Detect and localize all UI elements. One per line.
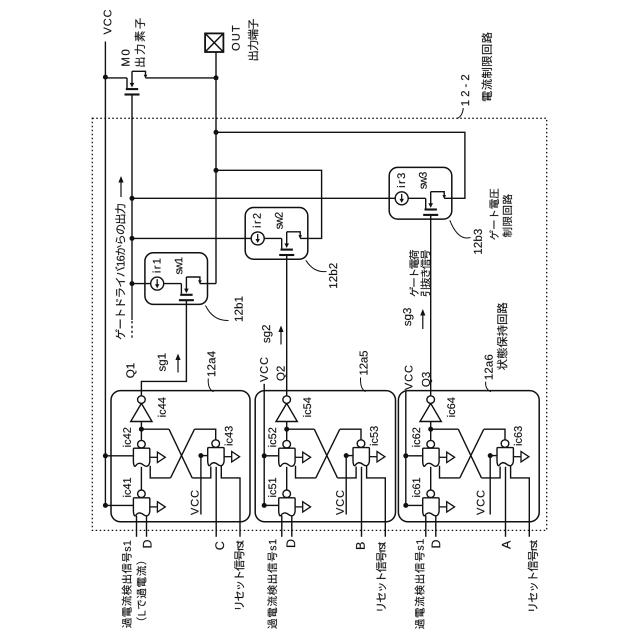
label 12a5 xyxy=(360,351,368,375)
wire ic53 stub to reset xyxy=(367,466,386,537)
label L-level overcurrent note xyxy=(136,562,146,620)
wire ic63 input from VCC stub xyxy=(490,455,497,457)
wire latch diagonal 1 xyxy=(458,429,481,478)
wire latch cross bottom-right xyxy=(192,467,211,478)
wire latch cross bottom-left xyxy=(150,466,170,478)
wire VCC stub block2 xyxy=(263,384,265,392)
wire ic61 input stub left xyxy=(425,516,427,537)
inverter ic44 xyxy=(131,396,152,422)
nand gate ic42 xyxy=(133,440,149,466)
wire ic42 input from rail xyxy=(105,455,133,457)
label ic63 xyxy=(514,426,522,445)
wire latch cross bottom-right xyxy=(482,467,501,478)
label ic64 xyxy=(447,397,455,416)
buffer triangle ic41 xyxy=(150,502,166,512)
wire VCC stub ic43 xyxy=(200,456,202,515)
label output from gate driver 16 xyxy=(115,204,125,339)
terminal OUT box xyxy=(205,33,223,52)
wire M0 drain to OUT node xyxy=(146,77,217,79)
wire ic63 stub to reset xyxy=(511,466,530,537)
label ir1 xyxy=(153,259,161,273)
buffer triangle ic61 xyxy=(439,502,455,512)
label ic53 xyxy=(370,426,378,445)
label D input block2 xyxy=(287,540,296,547)
wire ic61 input from rail xyxy=(406,504,423,506)
arrow sg1 direction xyxy=(175,354,180,373)
buffer triangle ic63 xyxy=(513,452,529,462)
label sg2 xyxy=(262,325,272,343)
wire ic43 input from VCC stub xyxy=(201,455,208,457)
wire ic44 input xyxy=(140,422,142,441)
wire ic43 stub to C-input xyxy=(215,467,217,537)
current source ir1 xyxy=(151,277,164,290)
label gate voltage limit 2 xyxy=(503,194,513,237)
label ir3 xyxy=(397,173,405,187)
leader line 12-2 xyxy=(458,108,464,118)
buffer triangle ic51 xyxy=(295,502,311,512)
wire ic54 input xyxy=(286,422,288,441)
buffer triangle ic62 xyxy=(439,452,455,462)
label A input xyxy=(502,541,511,549)
label D input block1 xyxy=(143,540,152,547)
label 12b3 xyxy=(474,229,482,254)
block 12a5 box xyxy=(255,391,395,522)
leader line 12b1 xyxy=(206,306,229,321)
wire ic52 input from rail xyxy=(264,455,279,457)
leader line 12b3 xyxy=(450,220,471,238)
label overcurrent detect signal s1 block1 xyxy=(122,541,132,628)
leader line 12a6 xyxy=(486,382,491,392)
label overcurrent detect signal s1 block2 xyxy=(267,540,277,629)
wire VCC stub ic63 xyxy=(489,456,491,515)
label VCC block2 xyxy=(260,357,268,382)
wire sg2 from latch to sw2 gate xyxy=(286,256,288,396)
node ic43 VCC junction xyxy=(198,453,203,458)
node ic54 input junction xyxy=(284,427,289,432)
label 12-2 xyxy=(461,75,469,106)
wire ic62 input from rail xyxy=(406,455,423,457)
wire ic42 to ic41 output xyxy=(140,467,142,491)
node rail to ic51 input xyxy=(262,503,267,508)
label 12a4 xyxy=(207,351,215,376)
wire ic43 stub to reset xyxy=(221,466,240,537)
label Q1 xyxy=(126,363,136,377)
wire latch cross-couple top-left xyxy=(287,428,315,430)
nand gate ic43 xyxy=(208,440,224,466)
wire VCC rail inside 12a5 xyxy=(263,391,265,506)
wire sw2 drain riser to OUT branch xyxy=(216,170,322,238)
wire ic53 input from VCC stub xyxy=(346,455,353,457)
node ic44 input junction xyxy=(139,427,144,432)
node gate line to ir2 feed xyxy=(130,236,135,241)
wire VCC rail inside 12a6 xyxy=(405,391,407,506)
label VCC inside 12a5 xyxy=(336,490,344,515)
nand gate ic51 xyxy=(279,490,295,516)
wire latch diagonal 2 xyxy=(460,429,484,478)
wire latch diagonal 2 xyxy=(316,429,340,478)
label sw2 xyxy=(275,212,283,229)
transistor sw3 xyxy=(423,192,446,215)
wire sw1 drain to OUT line xyxy=(200,283,216,285)
label M0 output element xyxy=(135,18,145,66)
label ic44 xyxy=(158,397,166,416)
wire sg1 from latch to sw1 gate xyxy=(141,301,186,396)
boundary current limit circuit 12-2 dotted box xyxy=(92,118,546,530)
nand gate ic62 xyxy=(423,440,439,466)
buffer triangle ic53 xyxy=(369,452,385,462)
label VCC inside 12a4 xyxy=(191,490,199,515)
node gate line to ir3 feed xyxy=(130,196,135,201)
wire latch diagonal 1 xyxy=(169,429,192,478)
current source ir3 xyxy=(395,192,408,205)
wire ic41 input from rail xyxy=(105,504,133,506)
label ir2 xyxy=(253,214,261,228)
nand gate ic53 xyxy=(353,440,369,466)
label ic62 xyxy=(412,428,420,447)
wire ir2 to sw2 xyxy=(264,237,282,239)
label Q2 xyxy=(277,366,287,380)
node VCC/M0-source junction xyxy=(103,75,108,80)
label gate charge 1 xyxy=(409,250,419,297)
node OUT to sw2 branch xyxy=(214,168,219,173)
wire ir3 feed xyxy=(132,197,395,199)
nand gate ic52 xyxy=(279,440,295,466)
block 12b2 box xyxy=(245,208,308,260)
nand gate ic61 xyxy=(423,490,439,516)
buffer triangle ic52 xyxy=(295,452,311,462)
wire gate driver dashed continuation xyxy=(131,284,133,338)
wire latch cross bottom-left xyxy=(440,466,460,478)
label sg3 xyxy=(403,308,413,326)
label sw3 xyxy=(419,172,427,189)
wire ic41 input stub left xyxy=(136,516,138,537)
label ic42 xyxy=(123,428,131,447)
leader line 12b2 xyxy=(306,260,327,271)
label state holding circuit xyxy=(497,303,507,370)
label D input block3 xyxy=(432,540,441,547)
node rail to ic52 input xyxy=(262,453,267,458)
label gate voltage limit 1 xyxy=(489,189,499,240)
block 12b3 box xyxy=(389,167,452,219)
wire ic51 input stub right xyxy=(291,516,293,537)
wire latch cross bottom-right xyxy=(338,467,357,478)
label VCC supply xyxy=(104,10,112,35)
wire ic51 input from rail xyxy=(264,504,279,506)
buffer triangle ic43 xyxy=(224,452,240,462)
node rail to ic61 input xyxy=(403,503,408,508)
wire ic61 input stub right xyxy=(435,516,437,537)
wire latch cross top-right xyxy=(340,429,361,441)
wire ic51 input stub left xyxy=(281,516,283,537)
label M0 xyxy=(122,50,130,66)
wire latch cross top-right xyxy=(484,429,505,441)
label Q3 xyxy=(422,372,432,386)
wire M0 gate line xyxy=(131,95,133,284)
node OUT to sw3 branch xyxy=(214,130,219,135)
wire latch diagonal 2 xyxy=(171,429,195,478)
node rail to ic62 input xyxy=(403,453,408,458)
node VCC rail to ic42 input xyxy=(103,453,108,458)
power rail VCC vertical xyxy=(104,77,106,505)
label reset signal rst block1 xyxy=(234,541,244,609)
label overcurrent detect signal s1 block3 xyxy=(415,539,425,629)
label output terminal xyxy=(248,19,258,60)
wire sw3 drain riser to OUT branch xyxy=(216,132,465,198)
arrow gate driver signal direction xyxy=(118,176,123,197)
label current limiting circuit xyxy=(482,32,492,101)
wire latch cross-couple top-left xyxy=(431,428,459,430)
node gate line to ir1 feed xyxy=(130,281,135,286)
wire ir1 feed xyxy=(132,283,151,285)
leader line 12a4 xyxy=(208,379,213,392)
wire ir3 to sw3 xyxy=(408,197,426,199)
label sw1 xyxy=(175,258,183,275)
wire ic64 input xyxy=(430,422,432,441)
transistor M0 xyxy=(125,71,148,94)
wire ic41 input stub right xyxy=(146,516,148,537)
label ic41 xyxy=(123,478,131,497)
wire latch cross top-right xyxy=(195,429,216,441)
wire latch diagonal 1 xyxy=(314,429,337,478)
wire ic53 stub to C-input xyxy=(361,467,363,537)
label ic43 xyxy=(225,426,233,445)
wire VCC stub ic53 xyxy=(345,456,347,515)
wire VCC stub block3 xyxy=(405,391,407,392)
label VCC inside 12a6 xyxy=(477,490,485,515)
label 12a6 xyxy=(485,355,493,380)
label OUT xyxy=(232,26,240,51)
transistor sw1 xyxy=(179,277,202,300)
node OUT/M0-drain junction xyxy=(214,75,219,80)
buffer triangle ic42 xyxy=(150,452,166,462)
wire ic52 to ic51 output xyxy=(286,467,288,491)
leader line 12a5 xyxy=(361,378,366,392)
label ic51 xyxy=(268,478,276,497)
arrow sg3 direction xyxy=(420,309,425,329)
block 12a4 box xyxy=(111,391,250,522)
wire ic63 stub to C-input xyxy=(505,467,507,537)
label C input xyxy=(215,542,224,550)
block 12a6 box xyxy=(398,391,539,522)
label sg1 xyxy=(158,354,168,372)
wire M0 source from VCC xyxy=(105,77,127,79)
wire latch cross bottom-left xyxy=(296,466,316,478)
inverter ic54 xyxy=(276,396,297,422)
label B input xyxy=(356,542,365,549)
label ic52 xyxy=(268,428,276,447)
inverter ic64 xyxy=(420,396,441,422)
label VCC block3 xyxy=(405,366,413,391)
wire sg3 from latch to sw3 gate xyxy=(430,216,432,396)
wire OUT vertical xyxy=(215,52,217,284)
label reset signal rst block3 xyxy=(528,540,538,610)
label gate charge 2 xyxy=(420,250,430,296)
nand gate ic41 xyxy=(133,490,149,516)
node ic53 VCC junction xyxy=(344,453,349,458)
wire ir2 feed xyxy=(132,237,251,239)
node VCC rail to ic41 input xyxy=(103,503,108,508)
wire ic62 to ic61 output xyxy=(430,467,432,491)
transistor sw2 xyxy=(279,232,302,255)
label 12b2 xyxy=(329,263,337,288)
wire VCC stub xyxy=(104,42,106,78)
label reset signal rst block2 xyxy=(376,542,386,610)
block 12b1 box xyxy=(145,253,208,305)
arrow sg2 direction xyxy=(278,326,283,345)
node ic64 input junction xyxy=(428,427,433,432)
node ic63 VCC junction xyxy=(488,453,493,458)
wire latch cross-couple top-left xyxy=(141,428,169,430)
current source ir2 xyxy=(251,232,264,245)
label 12b1 xyxy=(234,297,242,322)
nand gate ic63 xyxy=(497,440,513,466)
label ic61 xyxy=(412,478,420,497)
label ic54 xyxy=(303,397,311,416)
wire ir1 to sw1 xyxy=(164,283,182,285)
